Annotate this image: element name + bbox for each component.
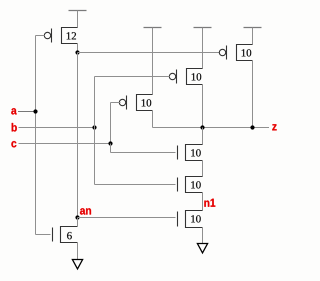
node b label (12, 123, 17, 132)
wire node an vertical rail down to an junction (77, 53, 79, 218)
junction node a (33, 109, 37, 113)
wire M6 drain up to node an junction (77, 218, 79, 227)
wire P3 drain down to z junction (202, 85, 204, 128)
wire P4 gate vertical down to node c junction (110, 103, 112, 144)
wire output net z (153, 127, 270, 129)
wire input c line (19, 143, 111, 145)
wire node c vertical to N1 gate elbow (110, 144, 112, 153)
wire P4 gate stub horizontal (111, 102, 121, 104)
junction node c (108, 141, 112, 145)
junction node an at P1 drain / P2 gate (75, 50, 79, 54)
value label 10 (width of P3) (192, 73, 202, 80)
value label 10 (width of P4) (142, 99, 152, 106)
value label 10 (width of P2) (242, 49, 252, 56)
power symbol VDD4 (source of P4) (144, 28, 162, 45)
pmos P3 gate=b w=10 (169, 69, 202, 85)
value label 10 (width of N1) (191, 149, 201, 156)
wire P4 drain down to z line corner (152, 111, 154, 128)
power symbol VDD1 (source of P1) (69, 11, 87, 28)
junction z / P3 drain / N1 drain (200, 125, 204, 129)
wire VDD3 to P3 source (202, 45, 204, 69)
nmos M6 gate=a w=6 (53, 227, 78, 243)
node an label (80, 208, 91, 214)
wire M6 source down to ground (77, 243, 79, 260)
pmos P4 gate=c w=10 (119, 95, 152, 111)
wire N3 source down to ground (202, 228, 204, 244)
wire VDD4 to P4 source (152, 45, 154, 95)
wire node a vertical rail (P1 gate down to M6 gate elbow) (35, 36, 37, 235)
junction node b (92, 125, 96, 129)
wire node a elbow to M6 gate (36, 234, 51, 236)
wire input a stub (18, 111, 36, 113)
value label 6 (width of M6) (67, 232, 72, 239)
pmos P2 gate=an w=10 (219, 45, 252, 61)
ground symbol GND2 below N3 (197, 244, 207, 253)
junction z / P2 drain (250, 125, 254, 129)
node z label (272, 124, 276, 130)
node a label (11, 108, 16, 114)
value label 10 (width of N2) (191, 181, 201, 188)
power symbol VDD2 (source of P2) (244, 28, 262, 45)
nmos N2 gate=b w=10 (178, 177, 203, 193)
value label 12 (width of P1) (67, 32, 76, 39)
pmos P1 gate=a w=12 (44, 28, 77, 44)
wire node an horizontal to N3 gate (78, 217, 176, 219)
nmos N1 gate=c w=10 (178, 145, 203, 161)
wire node b horizontal to P3 gate (95, 76, 170, 78)
wire P2 drain down to z line (252, 61, 254, 128)
power symbol VDD3 (source of P3) (194, 28, 212, 45)
wire input b line (19, 127, 95, 129)
wire node b elbow to N2 gate (95, 184, 176, 186)
wire N2 source to N3 drain - node n1 (202, 193, 204, 211)
wire node c elbow to N1 gate (111, 152, 176, 154)
node c label (11, 141, 16, 147)
value label 10 (width of N3) (191, 215, 201, 222)
wire node an horizontal to P2 gate (78, 52, 220, 54)
wire node b vertical rail (P3 gate corner down to N2 gate elbow) (94, 77, 96, 185)
node n1 label (204, 199, 215, 207)
wire z junction down to N1 drain (202, 128, 204, 145)
wire P1 drain to junction (77, 44, 79, 53)
nmos N3 gate=an w=10 (178, 211, 203, 228)
junction node an (rail / M6 drain / N3 gate wire) (75, 215, 79, 219)
wire N1 source to N2 drain (202, 161, 204, 177)
ground symbol GND1 below M6 (72, 260, 82, 269)
wire gate stub of P1 to node a rail (36, 35, 45, 37)
